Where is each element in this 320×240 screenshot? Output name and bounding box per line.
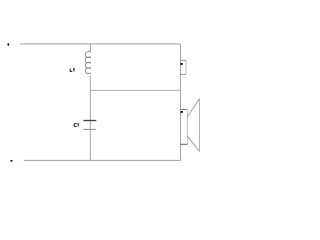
wire left branch vertical (top segment) — [89, 44, 91, 53]
node IN- (bottom input terminal dot) — [10, 160, 12, 162]
speaker cone — [187, 99, 199, 152]
tweeter polarity dot — [181, 63, 183, 65]
wire left branch vertical (lower segment) — [89, 76, 91, 161]
capacitor C1 (top plate) — [83, 120, 96, 122]
label C1 — [74, 124, 78, 127]
label L1 — [70, 69, 74, 72]
speaker polarity dot — [181, 111, 183, 113]
wire top rail — [20, 43, 180, 45]
wire bottom rail — [24, 159, 181, 161]
capacitor C1 (bottom plate) — [83, 128, 96, 130]
wire middle horizontal — [90, 89, 180, 91]
wire right vertical — [180, 44, 182, 160]
tweeter SPK1 (small driver rectangle) — [181, 60, 187, 74]
speaker SPK2 (driver rectangle) — [181, 109, 188, 144]
node IN+ (top input terminal dot) — [7, 43, 9, 46]
inductor L1 (coil loops) — [85, 52, 90, 74]
